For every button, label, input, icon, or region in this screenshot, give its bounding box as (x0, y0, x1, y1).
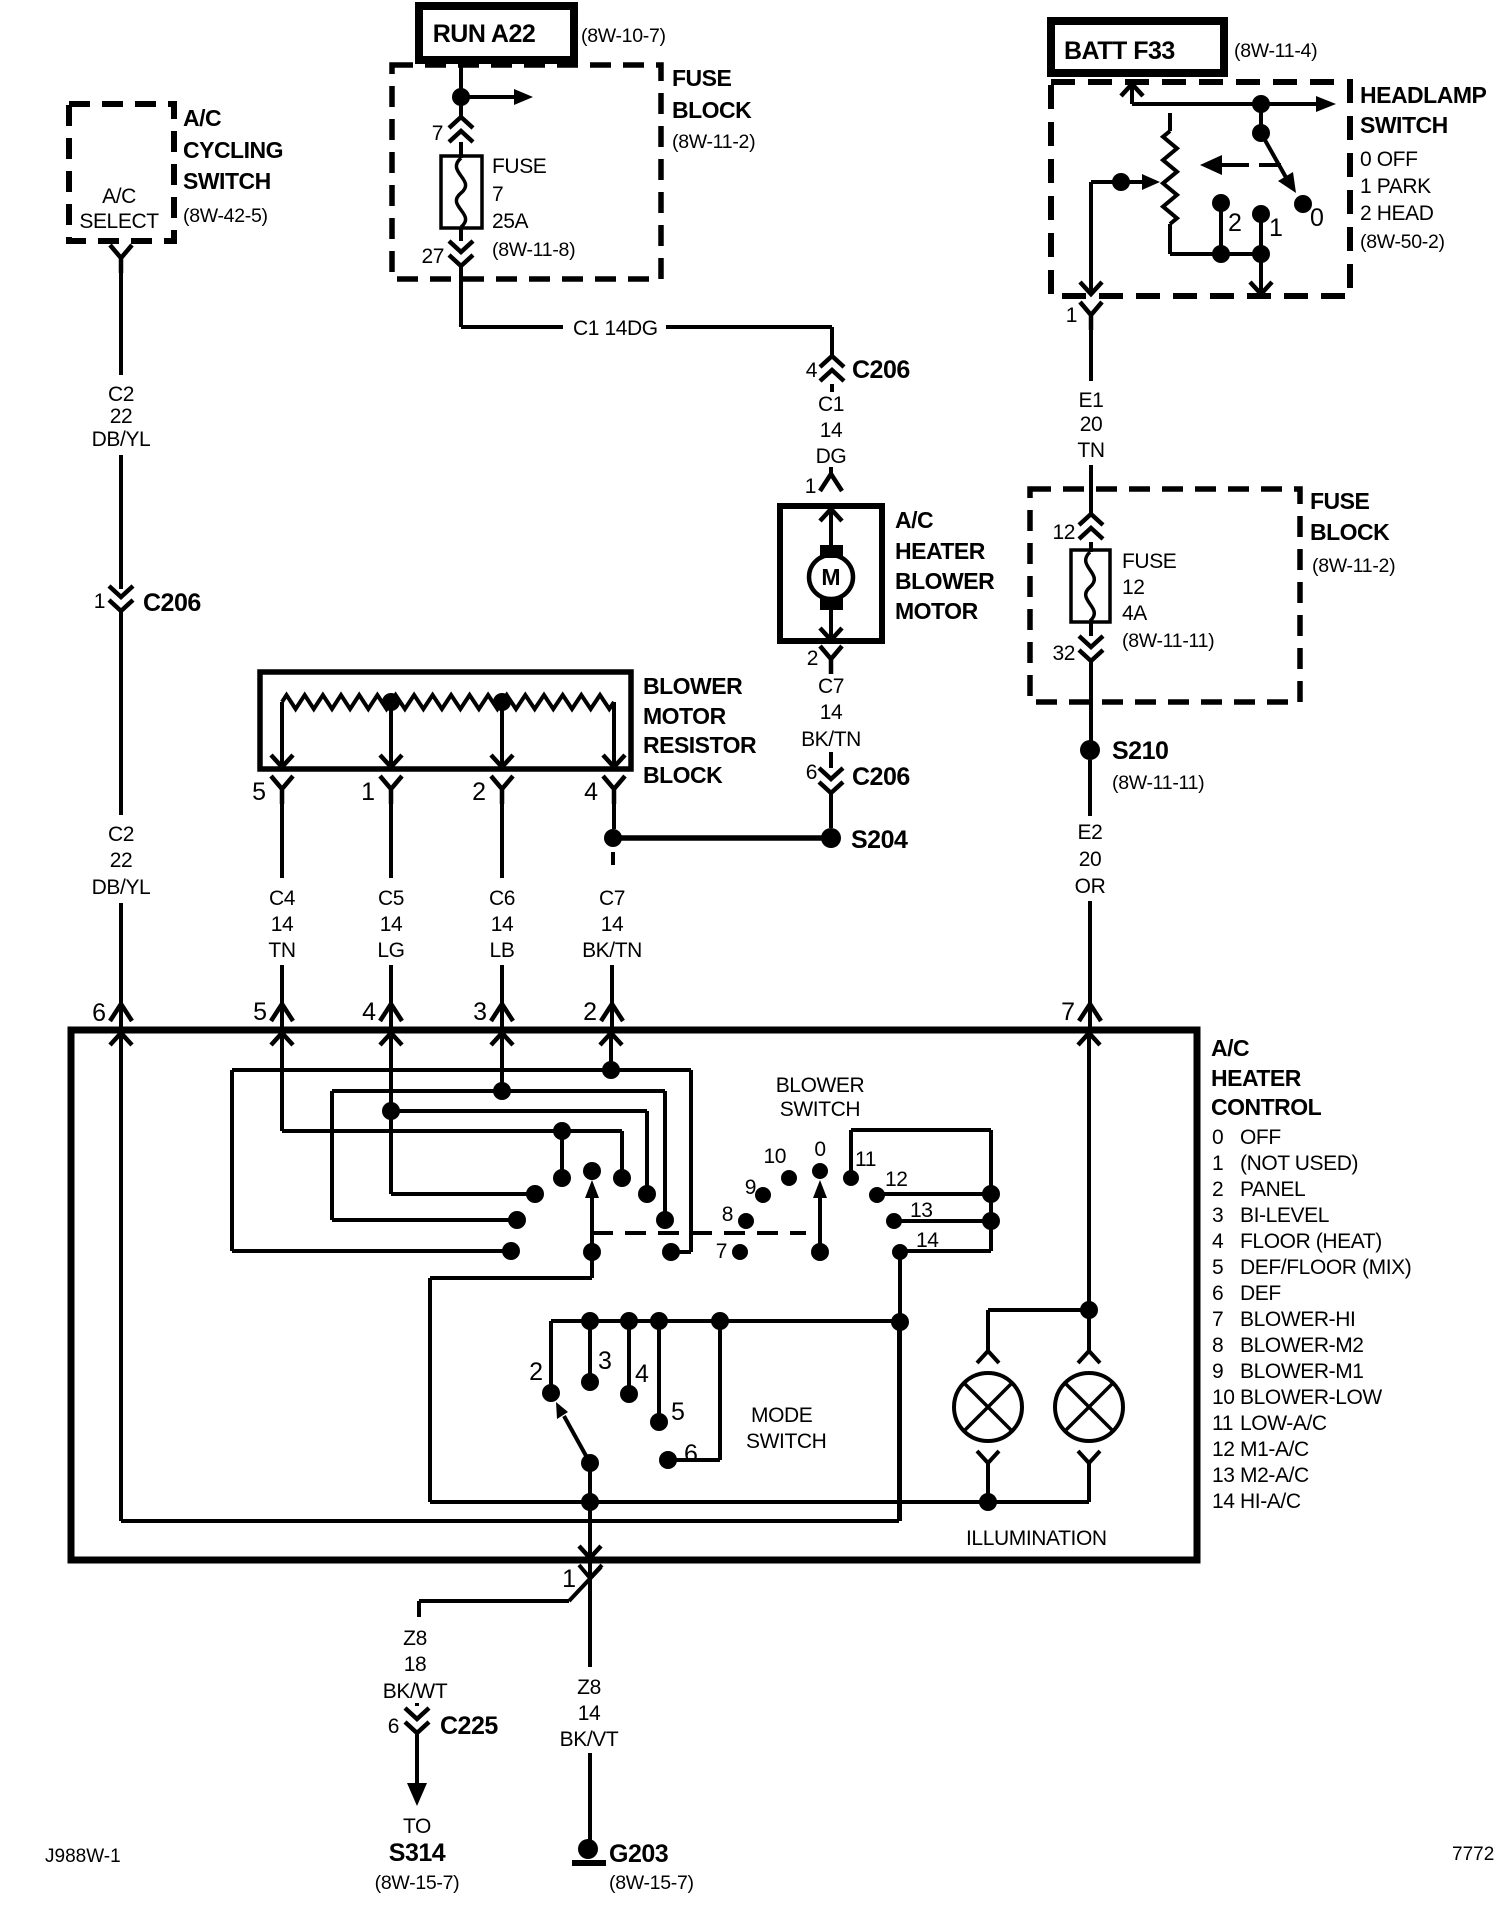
svg-text:2: 2 (807, 647, 818, 670)
svg-text:C7: C7 (599, 887, 625, 910)
svg-text:DG: DG (816, 445, 847, 468)
svg-text:1: 1 (562, 1565, 576, 1593)
svg-text:BK/WT: BK/WT (383, 1680, 448, 1703)
svg-text:5: 5 (671, 1398, 685, 1426)
svg-text:5: 5 (1212, 1256, 1223, 1279)
svg-text:6: 6 (684, 1440, 698, 1468)
svg-text:2 HEAD: 2 HEAD (1360, 202, 1434, 225)
svg-text:J988W-1: J988W-1 (45, 1846, 121, 1867)
svg-text:5: 5 (252, 778, 266, 806)
svg-text:C5: C5 (378, 887, 404, 910)
svg-text:4: 4 (1212, 1230, 1224, 1253)
svg-text:7: 7 (1061, 998, 1075, 1026)
svg-text:C6: C6 (489, 887, 515, 910)
svg-text:OR: OR (1075, 875, 1106, 898)
svg-text:BLOWER-M2: BLOWER-M2 (1240, 1334, 1364, 1357)
svg-text:MOTOR: MOTOR (643, 703, 727, 729)
svg-text:BK/VT: BK/VT (560, 1728, 619, 1751)
svg-text:MODE: MODE (751, 1404, 813, 1427)
svg-text:(8W-15-7): (8W-15-7) (609, 1872, 694, 1894)
svg-text:1: 1 (1212, 1152, 1223, 1175)
svg-text:BLOWER: BLOWER (643, 673, 743, 699)
svg-text:4: 4 (362, 998, 376, 1026)
svg-text:1: 1 (1269, 214, 1283, 242)
svg-text:20: 20 (1079, 848, 1102, 871)
svg-text:12: 12 (885, 1168, 908, 1191)
svg-text:SWITCH: SWITCH (1360, 112, 1448, 138)
svg-text:12: 12 (1212, 1438, 1235, 1461)
svg-text:(8W-11-2): (8W-11-2) (672, 131, 755, 153)
svg-text:FUSE: FUSE (1310, 488, 1370, 514)
svg-text:14: 14 (820, 419, 843, 442)
svg-text:7772: 7772 (1452, 1844, 1494, 1865)
svg-text:S314: S314 (389, 1839, 446, 1867)
svg-text:A/C: A/C (895, 507, 933, 533)
svg-text:TN: TN (268, 939, 295, 962)
svg-text:Z8: Z8 (403, 1627, 427, 1650)
svg-text:14: 14 (578, 1702, 601, 1725)
svg-text:6: 6 (388, 1715, 399, 1738)
svg-text:14: 14 (601, 913, 624, 936)
svg-text:0 OFF: 0 OFF (1360, 148, 1418, 171)
svg-text:BLOWER-HI: BLOWER-HI (1240, 1308, 1355, 1331)
svg-text:3: 3 (598, 1347, 612, 1375)
svg-text:A/C: A/C (1211, 1035, 1249, 1061)
svg-text:2: 2 (529, 1358, 543, 1386)
svg-text:LB: LB (490, 939, 515, 962)
svg-text:22: 22 (110, 849, 133, 872)
svg-text:14: 14 (916, 1229, 939, 1252)
svg-text:BLOWER-M1: BLOWER-M1 (1240, 1360, 1364, 1383)
svg-text:SELECT: SELECT (79, 210, 159, 233)
svg-text:7: 7 (716, 1240, 727, 1263)
svg-text:C206: C206 (852, 763, 910, 791)
svg-text:(NOT USED): (NOT USED) (1240, 1152, 1358, 1175)
svg-text:10: 10 (1212, 1386, 1235, 1409)
svg-text:11: 11 (1212, 1412, 1233, 1435)
svg-text:OFF: OFF (1240, 1126, 1281, 1149)
svg-text:M1-A/C: M1-A/C (1240, 1438, 1309, 1461)
svg-text:C2: C2 (108, 383, 134, 406)
svg-text:10: 10 (763, 1145, 786, 1168)
svg-text:C7: C7 (818, 675, 844, 698)
svg-text:C225: C225 (440, 1712, 498, 1740)
svg-text:ILLUMINATION: ILLUMINATION (966, 1527, 1107, 1550)
svg-text:2: 2 (1212, 1178, 1223, 1201)
svg-text:4: 4 (806, 359, 818, 382)
svg-text:MOTOR: MOTOR (895, 598, 979, 624)
svg-text:(8W-10-7): (8W-10-7) (581, 25, 666, 47)
svg-text:A/C: A/C (183, 105, 221, 131)
svg-text:22: 22 (110, 405, 133, 428)
svg-text:BI-LEVEL: BI-LEVEL (1240, 1204, 1329, 1227)
svg-text:FUSE: FUSE (492, 155, 547, 178)
svg-text:M: M (821, 564, 840, 590)
svg-text:7: 7 (492, 183, 503, 206)
svg-text:6: 6 (1212, 1282, 1223, 1305)
svg-text:S204: S204 (851, 826, 908, 854)
svg-text:HEADLAMP: HEADLAMP (1360, 82, 1486, 108)
svg-text:S210: S210 (1112, 737, 1168, 765)
svg-text:C206: C206 (852, 356, 910, 384)
svg-text:BLOWER: BLOWER (895, 568, 995, 594)
svg-text:SWITCH: SWITCH (183, 168, 271, 194)
svg-text:M2-A/C: M2-A/C (1240, 1464, 1309, 1487)
svg-text:12: 12 (1122, 576, 1145, 599)
svg-text:25A: 25A (492, 210, 529, 233)
svg-text:3: 3 (473, 998, 487, 1026)
svg-text:2: 2 (1228, 209, 1242, 237)
svg-text:HEATER: HEATER (1211, 1065, 1302, 1091)
svg-text:12: 12 (1052, 521, 1075, 544)
svg-text:13: 13 (1212, 1464, 1235, 1487)
svg-text:TO: TO (403, 1815, 431, 1838)
svg-text:CYCLING: CYCLING (183, 137, 283, 163)
svg-text:BLOCK: BLOCK (643, 762, 723, 788)
svg-text:2: 2 (472, 778, 486, 806)
svg-text:8: 8 (1212, 1334, 1223, 1357)
svg-text:6: 6 (806, 761, 817, 784)
svg-text:4: 4 (584, 778, 598, 806)
svg-text:C4: C4 (269, 887, 296, 910)
svg-text:(8W-11-11): (8W-11-11) (1122, 630, 1214, 652)
svg-text:1: 1 (1066, 304, 1077, 327)
svg-text:14: 14 (491, 913, 514, 936)
svg-text:5: 5 (253, 998, 267, 1026)
svg-text:9: 9 (1212, 1360, 1223, 1383)
svg-text:FLOOR (HEAT): FLOOR (HEAT) (1240, 1230, 1382, 1253)
svg-text:C206: C206 (143, 589, 201, 617)
svg-text:13: 13 (910, 1199, 933, 1222)
svg-text:Z8: Z8 (577, 1676, 601, 1699)
svg-text:7: 7 (1212, 1308, 1223, 1331)
svg-text:C2: C2 (108, 823, 134, 846)
svg-text:LOW-A/C: LOW-A/C (1240, 1412, 1327, 1435)
svg-text:3: 3 (1212, 1204, 1223, 1227)
svg-text:(8W-15-7): (8W-15-7) (375, 1872, 460, 1894)
svg-text:E1: E1 (1079, 389, 1104, 412)
svg-text:DB/YL: DB/YL (92, 428, 151, 451)
svg-text:DEF: DEF (1240, 1282, 1281, 1305)
svg-text:7: 7 (432, 122, 443, 145)
svg-text:E2: E2 (1078, 821, 1103, 844)
svg-text:PANEL: PANEL (1240, 1178, 1305, 1201)
svg-text:TN: TN (1077, 439, 1104, 462)
svg-text:6: 6 (92, 999, 106, 1027)
svg-text:DB/YL: DB/YL (92, 876, 151, 899)
svg-text:BLOCK: BLOCK (1310, 519, 1390, 545)
svg-text:(8W-42-5): (8W-42-5) (183, 205, 268, 227)
svg-text:14: 14 (380, 913, 403, 936)
svg-text:C1 14DG: C1 14DG (573, 317, 658, 340)
svg-text:RUN A22: RUN A22 (433, 20, 536, 48)
svg-text:11: 11 (855, 1148, 876, 1171)
svg-text:FUSE: FUSE (1122, 550, 1177, 573)
svg-text:BLOWER: BLOWER (776, 1074, 865, 1097)
svg-text:20: 20 (1080, 413, 1103, 436)
svg-text:32: 32 (1052, 642, 1075, 665)
svg-text:14: 14 (820, 701, 843, 724)
svg-text:1: 1 (361, 778, 375, 806)
svg-text:BK/TN: BK/TN (801, 728, 861, 751)
svg-text:BATT F33: BATT F33 (1064, 37, 1175, 65)
svg-text:BLOWER-LOW: BLOWER-LOW (1240, 1386, 1382, 1409)
svg-text:4: 4 (635, 1360, 649, 1388)
svg-text:0: 0 (1310, 204, 1324, 232)
svg-text:(8W-50-2): (8W-50-2) (1360, 231, 1445, 253)
svg-text:(8W-11-2): (8W-11-2) (1312, 555, 1395, 577)
svg-text:SWITCH: SWITCH (780, 1098, 860, 1121)
svg-text:HI-A/C: HI-A/C (1240, 1490, 1301, 1513)
svg-text:DEF/FLOOR (MIX): DEF/FLOOR (MIX) (1240, 1256, 1411, 1279)
svg-text:18: 18 (404, 1653, 427, 1676)
svg-text:BLOCK: BLOCK (672, 97, 752, 123)
svg-text:1: 1 (94, 590, 105, 613)
svg-text:0: 0 (814, 1138, 825, 1161)
svg-text:(8W-11-4): (8W-11-4) (1234, 40, 1317, 62)
svg-text:2: 2 (583, 998, 597, 1026)
svg-text:27: 27 (421, 245, 444, 268)
svg-text:BK/TN: BK/TN (582, 939, 642, 962)
svg-text:9: 9 (745, 1176, 756, 1199)
svg-text:RESISTOR: RESISTOR (643, 732, 757, 758)
svg-text:(8W-11-11): (8W-11-11) (1112, 772, 1204, 794)
svg-text:0: 0 (1212, 1126, 1223, 1149)
svg-text:(8W-11-8): (8W-11-8) (492, 239, 575, 261)
svg-text:FUSE: FUSE (672, 65, 732, 91)
svg-text:4A: 4A (1122, 602, 1147, 625)
svg-text:8: 8 (722, 1203, 733, 1226)
svg-text:C1: C1 (818, 393, 844, 416)
svg-text:1: 1 (805, 475, 816, 498)
svg-text:SWITCH: SWITCH (746, 1430, 826, 1453)
svg-text:CONTROL: CONTROL (1211, 1094, 1322, 1120)
svg-text:A/C: A/C (102, 185, 136, 208)
svg-text:1 PARK: 1 PARK (1360, 175, 1431, 198)
svg-text:HEATER: HEATER (895, 538, 986, 564)
svg-text:G203: G203 (609, 1840, 668, 1868)
svg-text:14: 14 (1212, 1490, 1235, 1513)
svg-text:14: 14 (271, 913, 294, 936)
svg-text:LG: LG (377, 939, 404, 962)
